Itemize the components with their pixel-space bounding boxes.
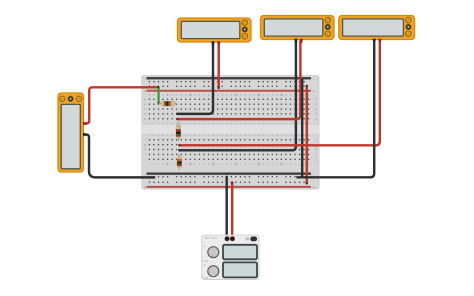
svg-text:25: 25 — [257, 162, 261, 166]
svg-text:20: 20 — [234, 162, 238, 166]
svg-text:+: + — [144, 186, 146, 190]
svg-text:30: 30 — [280, 162, 284, 166]
svg-text:+: + — [313, 89, 315, 93]
svg-text:e: e — [144, 117, 146, 121]
svg-text:-: - — [313, 77, 314, 81]
svg-text:j: j — [144, 157, 146, 161]
svg-text:h: h — [144, 148, 146, 152]
svg-text:f: f — [145, 138, 146, 142]
svg-text:A: A — [204, 263, 206, 267]
svg-text:10: 10 — [189, 93, 193, 97]
svg-text:10: 10 — [189, 162, 193, 166]
svg-text:e: e — [315, 117, 317, 121]
svg-text:30: 30 — [280, 93, 284, 97]
svg-text:b: b — [144, 102, 146, 106]
svg-text:d: d — [144, 112, 146, 116]
svg-text:-: - — [313, 172, 314, 176]
svg-text:j: j — [315, 157, 317, 161]
svg-text:f: f — [316, 138, 317, 142]
svg-text:+: + — [313, 186, 315, 190]
svg-text:V: V — [204, 244, 206, 248]
svg-text:a: a — [144, 98, 146, 102]
svg-text:+: + — [144, 89, 146, 93]
svg-text:15: 15 — [211, 162, 215, 166]
svg-text:5: 5 — [167, 93, 169, 97]
svg-text:a: a — [315, 98, 317, 102]
svg-text:0.00: 0.00 — [203, 276, 209, 280]
svg-text:-: - — [144, 77, 145, 81]
svg-text:d: d — [315, 112, 317, 116]
svg-text:20: 20 — [234, 93, 238, 97]
svg-text:b: b — [315, 102, 317, 106]
svg-text:g: g — [144, 143, 146, 147]
svg-text:5: 5 — [167, 162, 169, 166]
svg-text:25: 25 — [257, 93, 261, 97]
svg-text:-: - — [144, 172, 145, 176]
svg-text:h: h — [315, 148, 317, 152]
